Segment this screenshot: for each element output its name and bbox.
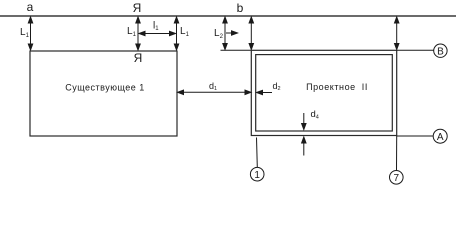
wire: axis A line to circle	[397, 135, 434, 137]
building: Проектное II outer wall	[251, 50, 396, 135]
wire: axis B line to circle	[397, 49, 434, 51]
svg-text:Я: Я	[134, 51, 143, 65]
dimension arrow L1 (x=138)	[136, 17, 140, 50]
svg-text:В: В	[437, 46, 444, 57]
dimension arrow d4 upper (pointing down to inner bottom wall)	[302, 113, 306, 130]
wire: axis 7 line down	[396, 136, 398, 171]
svg-text:Я: Я	[133, 1, 142, 15]
dimension arrow L1 (x=176.5)	[174, 17, 178, 50]
axis circle B	[434, 44, 447, 57]
svg-text:b: b	[237, 1, 244, 15]
axis circle A	[433, 129, 447, 143]
dimension arrow L1 (x=30, from top line to building 1)	[28, 17, 32, 50]
dimension arrow l1 (horizontal between x=138 and x=176.5)	[139, 31, 176, 35]
dimension arrow d1 (between buildings)	[178, 90, 252, 94]
pointer arrow from L2	[226, 31, 238, 35]
axis circle 1	[250, 167, 264, 181]
wire: axis 1 line down	[256, 138, 259, 168]
svg-text:Проектное II: Проектное II	[306, 82, 368, 92]
dimension arrow (x=251, axis 1 top)	[249, 17, 253, 50]
svg-text:А: А	[437, 132, 444, 143]
axis circle 7	[390, 171, 404, 185]
dimension arrow d4 lower (pointing up to outer bottom wall)	[302, 137, 306, 156]
svg-text:1: 1	[254, 170, 260, 181]
svg-text:a: a	[27, 0, 34, 14]
dimension arrow (x=396.7, axis 7 top)	[395, 17, 399, 50]
building: Существующее 1	[30, 51, 177, 136]
wire: top boundary line (red line)	[0, 15, 456, 17]
dimension arrow d2 (wall thickness pointer, left wall)	[257, 90, 273, 94]
dimension arrow L2 (x=225)	[223, 17, 227, 50]
svg-text:7: 7	[394, 173, 400, 184]
building: Проектное II inner wall	[256, 55, 393, 131]
wire: extension line left of building 2 top	[221, 49, 252, 51]
svg-text:Существующее 1: Существующее 1	[65, 83, 145, 93]
